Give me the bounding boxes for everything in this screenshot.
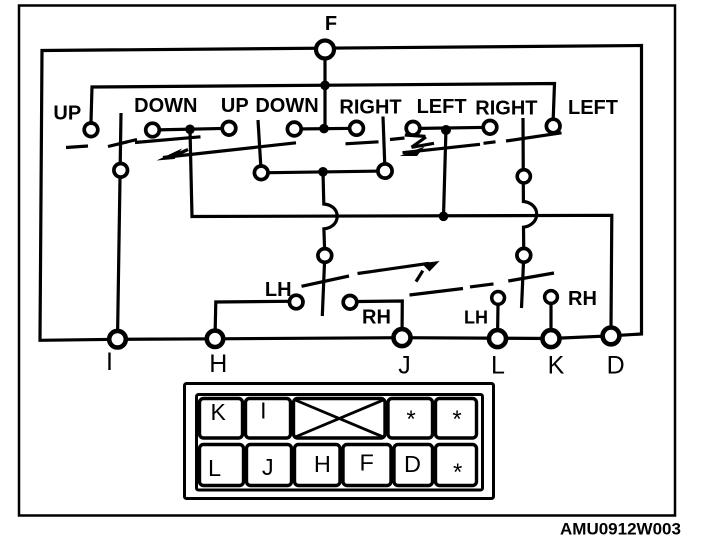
svg-text:D: D [404, 451, 421, 477]
svg-text:UP: UP [221, 95, 249, 117]
svg-text:LH: LH [265, 279, 292, 301]
svg-text:L: L [208, 455, 221, 481]
svg-text:*: * [452, 406, 461, 433]
svg-text:*: * [453, 459, 462, 486]
svg-text:AMU0912W003: AMU0912W003 [560, 520, 681, 539]
svg-text:LEFT: LEFT [568, 97, 618, 119]
svg-text:I: I [106, 348, 113, 376]
svg-text:DOWN: DOWN [134, 95, 197, 117]
svg-text:*: * [406, 406, 415, 433]
svg-text:RH: RH [362, 306, 391, 328]
svg-text:LH: LH [464, 308, 488, 328]
svg-text:F: F [360, 450, 374, 476]
svg-text:H: H [314, 451, 331, 477]
svg-text:LEFT: LEFT [417, 96, 467, 118]
svg-text:L: L [491, 351, 505, 379]
svg-text:D: D [607, 351, 625, 379]
svg-text:J: J [262, 454, 274, 480]
svg-text:DOWN: DOWN [255, 95, 318, 117]
svg-text:K: K [211, 399, 227, 425]
svg-text:F: F [325, 13, 337, 35]
svg-text:J: J [398, 351, 411, 379]
svg-text:UP: UP [53, 103, 81, 125]
svg-text:I: I [260, 398, 266, 424]
svg-text:RH: RH [568, 288, 597, 310]
svg-text:K: K [548, 351, 565, 379]
svg-text:H: H [209, 350, 227, 378]
svg-text:RIGHT: RIGHT [475, 97, 537, 119]
svg-text:RIGHT: RIGHT [339, 96, 401, 118]
